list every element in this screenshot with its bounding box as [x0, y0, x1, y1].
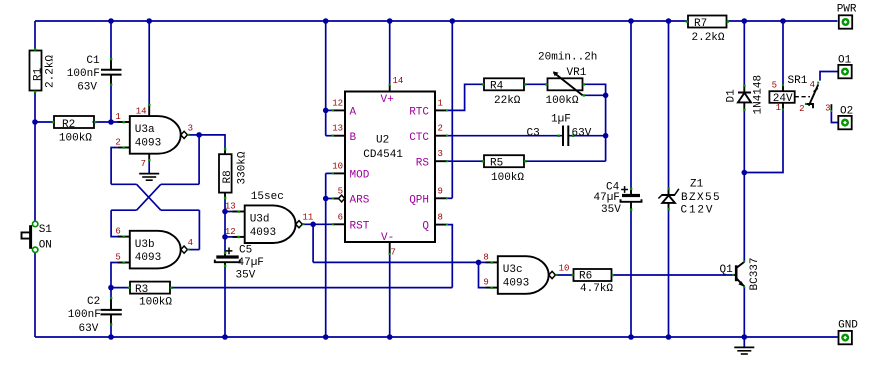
- svg-text:R8: R8: [222, 170, 234, 183]
- svg-text:47µF: 47µF: [594, 192, 620, 204]
- wire ground stub below Q1 emitter: [743, 337, 745, 347]
- svg-text:8: 8: [483, 252, 488, 262]
- junction rail/ARS column: [323, 334, 329, 340]
- svg-text:7: 7: [141, 159, 146, 169]
- wire MOD/ARS column to bottom rail: [325, 173, 327, 337]
- resistor R2: [52, 116, 97, 131]
- junction R8/U3d pin13: [222, 209, 228, 215]
- svg-text:R3: R3: [135, 284, 148, 296]
- relay coil SR1 24V: [769, 84, 794, 110]
- svg-text:22kΩ: 22kΩ: [494, 95, 521, 107]
- nand gate U3a (4093): [118, 104, 190, 162]
- wire cross latch: diagonal down-left: [137, 184, 161, 210]
- wire cross latch: upper right horizontal: [161, 183, 199, 185]
- wire U2 pin RS to R5: [448, 160, 484, 162]
- wire cross latch: lower right horizontal: [161, 209, 200, 211]
- wire U3c pin9 loop: [479, 262, 487, 287]
- electrolytic capacitor C5: [215, 245, 252, 268]
- wire U2 Q pin down to R3 wire: [448, 225, 453, 288]
- wire S1 bottom pin to bottom rail corner: [34, 253, 36, 338]
- wire U3d out junction to U2 RST: [302, 223, 333, 225]
- svg-text:2: 2: [438, 124, 443, 134]
- junction rail/AB column: [323, 18, 329, 24]
- U2 pin 14 V+: [381, 76, 404, 106]
- nand gate U3c (4093): [486, 256, 558, 294]
- diode D1: [726, 84, 752, 111]
- svg-text:20min..2h: 20min..2h: [538, 52, 597, 64]
- resistor R4: [482, 78, 527, 92]
- svg-text:100kΩ: 100kΩ: [139, 297, 172, 309]
- wire R1 bottom to R2 node: [34, 91, 36, 123]
- wire U3d pin12: [225, 236, 238, 238]
- svg-text:100kΩ: 100kΩ: [546, 95, 579, 107]
- wire U3b pin5 to C2 column: [111, 263, 123, 299]
- wire U3b out bubble to corner: [188, 249, 199, 251]
- junction U3d pin12/C5: [222, 234, 228, 240]
- svg-text:GND: GND: [838, 320, 858, 332]
- junction rail/C4: [628, 18, 634, 24]
- junction rail/D1: [742, 18, 748, 24]
- svg-text:C12V: C12V: [681, 205, 715, 217]
- svg-text:330kΩ: 330kΩ: [236, 151, 248, 184]
- svg-text:3: 3: [438, 149, 443, 159]
- svg-text:35V: 35V: [236, 270, 256, 282]
- wire A/B column from rail: [325, 21, 327, 136]
- svg-text:8: 8: [438, 213, 443, 223]
- U2 pin 12 A: [332, 98, 357, 118]
- svg-text:4093: 4093: [503, 278, 529, 290]
- junction A pin: [323, 108, 329, 114]
- U2 pin 10 MOD: [332, 161, 370, 181]
- svg-text:63V: 63V: [77, 81, 97, 93]
- svg-text:U3a: U3a: [135, 124, 155, 136]
- wire cross latch: diagonal down-right: [137, 184, 161, 210]
- junction VR1 wiper: [603, 93, 609, 99]
- wire D1 anode down to relay node: [743, 110, 745, 173]
- U2 pin 9 QPH: [409, 186, 448, 206]
- svg-text:D1: D1: [726, 89, 738, 103]
- capacitor C3: [527, 126, 575, 147]
- wire Z1 column from rail: [668, 21, 670, 188]
- svg-text:11: 11: [303, 213, 314, 223]
- U2 pin 2 CTC: [409, 124, 448, 144]
- IC U2 CD4541 body: [345, 92, 435, 243]
- svg-text:CD4541: CD4541: [363, 149, 403, 161]
- svg-text:Q: Q: [422, 221, 429, 233]
- wire R2 left: [35, 121, 54, 123]
- junction rail/C4 bottom: [628, 334, 634, 340]
- svg-text:100nF: 100nF: [67, 68, 100, 80]
- resistor R7: [686, 16, 729, 31]
- wire contact pin3 to O2 pad: [831, 112, 837, 123]
- svg-text:6: 6: [338, 212, 343, 222]
- wire Q1 emitter to bottom rail: [743, 287, 745, 337]
- svg-text:1: 1: [776, 103, 781, 113]
- svg-text:10: 10: [332, 161, 343, 171]
- wire U2 V- to bottom rail: [389, 254, 391, 337]
- wire C3 right: [569, 135, 606, 137]
- svg-text:C5: C5: [239, 245, 252, 257]
- svg-text:S1: S1: [39, 224, 53, 236]
- svg-text:U3d: U3d: [250, 213, 270, 225]
- svg-text:15sec: 15sec: [251, 191, 284, 203]
- svg-text:BC337: BC337: [749, 257, 761, 290]
- wire U3a out junction down: [198, 135, 200, 184]
- svg-text:4093: 4093: [135, 138, 161, 150]
- svg-text:12: 12: [225, 227, 236, 237]
- wire U2 pin ARS: [326, 198, 339, 200]
- wire R5 right: [524, 160, 606, 162]
- wire U3a pin14 from rail: [148, 21, 150, 104]
- ground symbol at U3a pin7: [139, 174, 159, 181]
- wire down to U3b pin6: [111, 210, 123, 236]
- svg-text:QPH: QPH: [409, 194, 429, 206]
- svg-text:100kΩ: 100kΩ: [59, 133, 92, 145]
- U2 pin 1 RTC: [409, 98, 448, 118]
- wire R4 to VR1: [524, 83, 548, 85]
- svg-text:5: 5: [338, 187, 343, 197]
- svg-text:100nF: 100nF: [68, 309, 101, 321]
- svg-text:PWR: PWR: [837, 4, 857, 16]
- svg-text:RS: RS: [416, 157, 430, 169]
- svg-text:SR1: SR1: [788, 75, 808, 87]
- wire R8 bottom to U3d pin13 node: [224, 198, 226, 212]
- svg-text:MOD: MOD: [350, 170, 370, 182]
- wire cross latch: lower left horizontal: [111, 209, 137, 211]
- svg-text:9: 9: [483, 278, 488, 288]
- svg-text:U3c: U3c: [503, 264, 523, 276]
- wire U2 pin RTC jog up to R4: [448, 84, 484, 110]
- svg-text:3: 3: [188, 123, 193, 133]
- pad GND: [838, 320, 858, 345]
- svg-text:63V: 63V: [572, 127, 592, 139]
- U2 pin 13 B: [332, 124, 357, 144]
- svg-text:R1: R1: [33, 67, 45, 81]
- svg-text:O1: O1: [838, 54, 852, 66]
- svg-text:A: A: [350, 107, 357, 119]
- relay contact SR1 blade and terminals: [805, 82, 832, 112]
- wire C1 bottom to R2/pin1 node: [110, 85, 112, 122]
- transistor Q1 BC337: [720, 260, 746, 288]
- svg-text:2: 2: [115, 138, 120, 148]
- wire cross latch: upper left horizontal: [111, 183, 137, 185]
- svg-text:63V: 63V: [79, 323, 99, 335]
- wire U2 pin QPH: [448, 197, 453, 199]
- svg-text:9: 9: [438, 186, 443, 196]
- svg-text:ARS: ARS: [350, 195, 370, 207]
- wire R3 left: [111, 287, 130, 289]
- svg-text:2: 2: [799, 104, 804, 114]
- wire U3d out junction down: [312, 224, 314, 262]
- wire R6 to Q1 base: [611, 274, 733, 276]
- svg-text:13: 13: [332, 124, 343, 134]
- wire SR1 coil pin1 down: [744, 110, 783, 173]
- svg-text:V+: V+: [381, 94, 394, 106]
- wire relay node to Q1 collector: [743, 173, 745, 262]
- wire U3d node13 to node12: [224, 212, 226, 237]
- junction rail/C1: [108, 18, 114, 24]
- wire U2 pin B: [326, 135, 333, 137]
- svg-text:35V: 35V: [601, 204, 621, 216]
- svg-text:C3: C3: [527, 127, 540, 139]
- wire RST net across to U3c: [313, 261, 478, 263]
- junction U3c pin8: [476, 260, 482, 266]
- pad O1: [838, 54, 852, 78]
- trimmer potentiometer VR1: [545, 67, 587, 97]
- wire O1 pad to contact pin4: [820, 72, 838, 81]
- wire U3a out to R8 top: [199, 135, 225, 149]
- wire U3a pin7 to ground: [148, 160, 150, 173]
- wire U2 pin V+ from rail: [389, 21, 391, 84]
- svg-text:CTC: CTC: [409, 132, 429, 144]
- svg-text:1N4148: 1N4148: [753, 75, 765, 115]
- wire GND bottom rail: [35, 336, 838, 338]
- svg-text:5: 5: [772, 81, 777, 91]
- junction rail/Q1 emitter: [742, 334, 748, 340]
- wire U3d pin13: [225, 211, 238, 213]
- junction rail/C5: [222, 334, 228, 340]
- resistor R1: [30, 48, 45, 93]
- electrolytic capacitor C4: [606, 182, 642, 211]
- svg-text:14: 14: [393, 76, 404, 86]
- zener diode Z1: [658, 179, 703, 211]
- svg-text:4.7kΩ: 4.7kΩ: [580, 283, 613, 295]
- svg-text:3: 3: [825, 104, 830, 114]
- svg-text:13: 13: [225, 202, 236, 212]
- U2 pin 8 Q: [422, 213, 448, 233]
- wire D1 column from rail: [743, 21, 745, 85]
- resistor R6: [571, 269, 614, 282]
- junction U3d out/RST: [310, 222, 316, 228]
- svg-text:U2: U2: [376, 135, 389, 147]
- junction R2 left: [32, 119, 38, 125]
- wire C2 bottom to bottom rail: [110, 324, 112, 337]
- svg-text:R7: R7: [694, 18, 707, 30]
- wire left column top (rail to R1): [34, 21, 36, 51]
- svg-text:4: 4: [810, 80, 815, 90]
- junction R3/C2: [108, 285, 114, 291]
- svg-text:4: 4: [188, 238, 193, 248]
- svg-text:1µF: 1µF: [551, 113, 571, 125]
- U2 pin 7 V-: [381, 232, 396, 258]
- wire U3a out to junction: [188, 134, 199, 136]
- junction rail/C2: [108, 334, 114, 340]
- capacitor C1: [86, 55, 121, 86]
- wire U3c out to R6: [555, 274, 573, 276]
- pad O2: [838, 106, 853, 130]
- wire C4 column from rail: [630, 21, 632, 189]
- svg-text:B: B: [350, 132, 357, 144]
- U2 pin 6 RST: [332, 212, 370, 232]
- resistor R5: [482, 155, 527, 169]
- svg-text:4093: 4093: [250, 227, 276, 239]
- wire C5 bottom to bottom rail: [224, 266, 226, 337]
- svg-text:RTC: RTC: [409, 107, 429, 119]
- wire U2 pin CTC to C3: [448, 135, 563, 137]
- junction D1/SR1 coil: [742, 170, 748, 176]
- svg-text:10: 10: [559, 264, 570, 274]
- svg-text:VR1: VR1: [567, 67, 587, 79]
- capacitor C2: [87, 296, 122, 326]
- junction rail/V-: [387, 334, 393, 340]
- svg-text:1: 1: [115, 112, 120, 122]
- U2 pin 3 RS: [416, 149, 448, 169]
- junction ARS pin: [323, 196, 329, 202]
- junction rail/U3a pin14: [146, 18, 152, 24]
- svg-text:Q1: Q1: [720, 264, 734, 276]
- wire PWR rail right of R7: [727, 20, 838, 22]
- svg-text:100kΩ: 100kΩ: [491, 172, 524, 184]
- svg-text:Z1: Z1: [690, 179, 704, 191]
- wire cross latch: U3a pin2 down: [111, 148, 117, 185]
- svg-text:2.2kΩ: 2.2kΩ: [45, 55, 57, 88]
- resistor R3: [128, 282, 173, 296]
- junction CTC/VR1: [603, 133, 609, 139]
- junction rail/QPH column: [450, 18, 456, 24]
- svg-text:ON: ON: [39, 240, 52, 252]
- junction C1/R2/pin1: [108, 119, 114, 125]
- svg-text:C1: C1: [86, 55, 100, 67]
- ground symbol at bottom rail: [734, 347, 754, 354]
- nand gate U3b (4093): [118, 231, 190, 269]
- wire R3 right to Q column: [170, 287, 452, 289]
- svg-text:5: 5: [115, 253, 120, 263]
- wire V+ to QPH column: [451, 21, 453, 198]
- svg-text:O2: O2: [840, 106, 853, 118]
- pushbutton switch S1: [22, 221, 53, 252]
- svg-text:R5: R5: [490, 158, 503, 170]
- wire C1 column rail to C1: [110, 21, 112, 59]
- wire U3c pin8: [479, 261, 487, 263]
- wire SR1 coil top from rail: [782, 21, 784, 85]
- svg-text:47µF: 47µF: [238, 257, 264, 269]
- svg-text:BZX55: BZX55: [681, 192, 721, 204]
- junction rail/V+ stub: [387, 18, 393, 24]
- pad PWR: [837, 4, 857, 29]
- wire cross latch: down to U3b out: [198, 210, 200, 249]
- wire VR1 wiper lead: [583, 94, 606, 96]
- wire U2 pin A: [326, 109, 333, 111]
- svg-text:12: 12: [332, 98, 343, 108]
- svg-text:2.2kΩ: 2.2kΩ: [692, 32, 725, 44]
- svg-text:R2: R2: [62, 119, 75, 131]
- svg-text:14: 14: [136, 107, 147, 117]
- junction rail/SR1 coil: [780, 18, 786, 24]
- wire VR1 right lead: [583, 84, 606, 161]
- wire C4 bottom to rail: [630, 209, 632, 337]
- wire R2 node down to S1 top pin: [34, 122, 36, 221]
- wire U3d node12 down to C5: [224, 237, 226, 253]
- svg-text:1: 1: [438, 98, 443, 108]
- wire U2 pin MOD: [326, 172, 333, 174]
- junction rail/Z1: [666, 18, 672, 24]
- junction rail/Z1 bottom: [666, 334, 672, 340]
- svg-text:7: 7: [391, 248, 396, 258]
- wire Z1 bottom to rail: [668, 209, 670, 337]
- wire V+ top rail left section: [35, 20, 688, 22]
- svg-text:RST: RST: [350, 220, 370, 232]
- nand gate U3d (4093): [233, 205, 305, 243]
- svg-text:C2: C2: [87, 296, 100, 308]
- wire R2 right to U3a pin1: [93, 121, 119, 123]
- svg-text:U3b: U3b: [135, 239, 155, 251]
- svg-text:R6: R6: [579, 270, 592, 282]
- svg-text:6: 6: [115, 227, 120, 237]
- relay mechanical link dashes: [795, 96, 810, 98]
- svg-text:V-: V-: [381, 232, 394, 244]
- U2 pin 5 ARS: [332, 187, 370, 207]
- svg-text:4093: 4093: [135, 252, 161, 264]
- junction U3a output: [196, 132, 202, 138]
- resistor R8: [219, 148, 234, 199]
- svg-text:R4: R4: [490, 81, 504, 93]
